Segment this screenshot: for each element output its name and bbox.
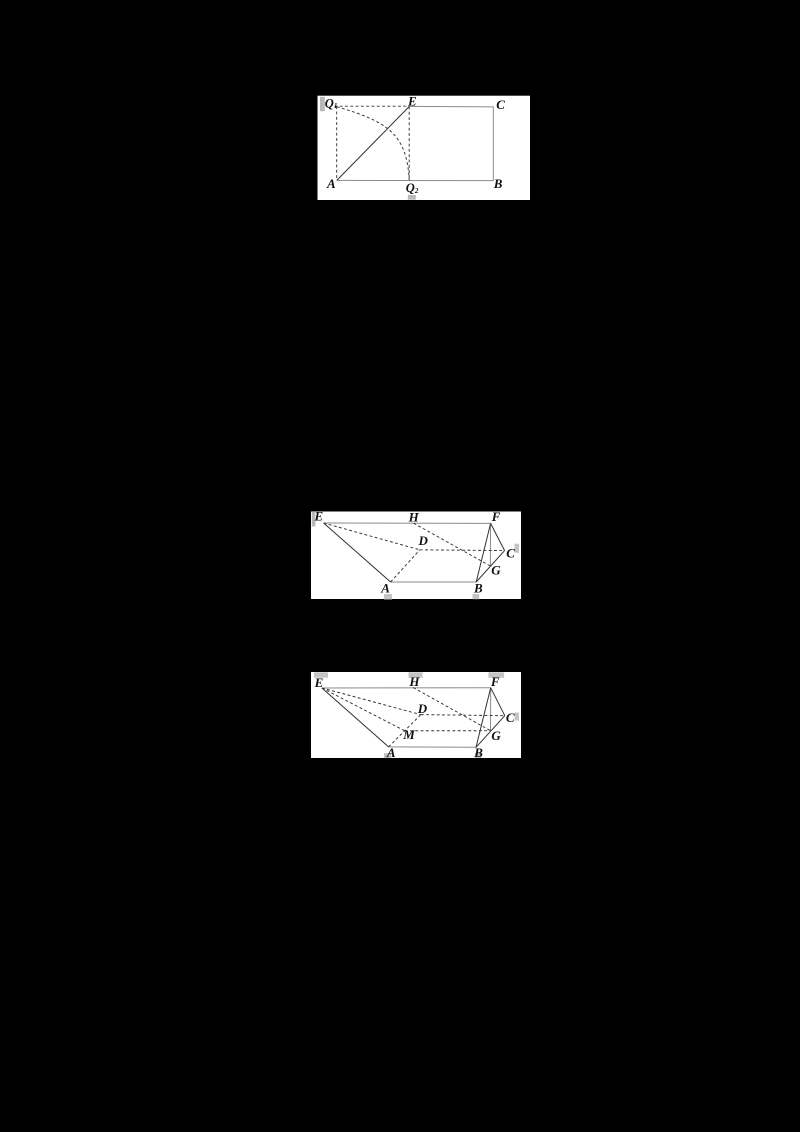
svg-text:C: C bbox=[496, 97, 505, 112]
svg-text:A: A bbox=[386, 745, 396, 760]
svg-text:E: E bbox=[407, 93, 417, 108]
svg-text:E: E bbox=[314, 508, 324, 523]
svg-text:B: B bbox=[473, 580, 483, 595]
svg-text:B: B bbox=[493, 176, 503, 191]
svg-text:B: B bbox=[473, 745, 483, 760]
svg-text:E: E bbox=[314, 675, 324, 690]
svg-text:C: C bbox=[506, 545, 515, 560]
svg-text:H: H bbox=[408, 509, 420, 524]
svg-text:H: H bbox=[408, 674, 420, 689]
svg-text:A: A bbox=[326, 176, 336, 191]
svg-text:A: A bbox=[380, 581, 390, 596]
svg-text:G: G bbox=[491, 563, 501, 578]
svg-text:C: C bbox=[506, 710, 515, 725]
svg-text:M: M bbox=[402, 727, 415, 742]
svg-text:D: D bbox=[417, 701, 428, 716]
svg-text:D: D bbox=[418, 533, 429, 548]
svg-text:G: G bbox=[491, 728, 501, 743]
svg-text:F: F bbox=[490, 674, 500, 689]
svg-text:F: F bbox=[491, 509, 501, 524]
